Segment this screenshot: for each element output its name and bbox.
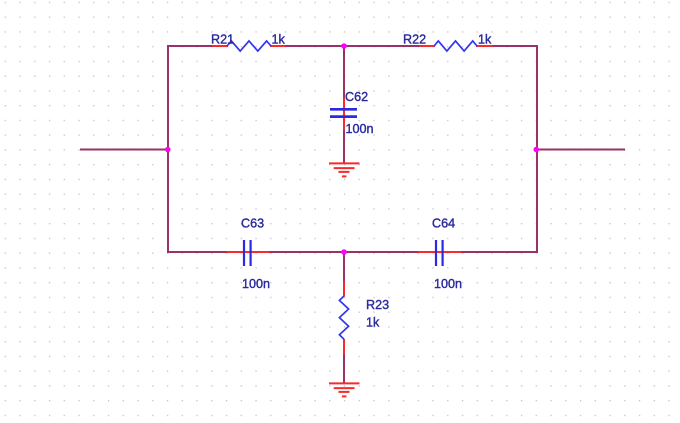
wire: R23 top vertical (node B down to R23) bbox=[343, 252, 345, 282]
capacitor C62 pin (vertical red lead) bbox=[343, 98, 345, 131]
wire: bottom rail left segment bbox=[167, 251, 228, 253]
wire: bottom rail right segment bbox=[460, 251, 538, 253]
resistor R21 pins bbox=[212, 45, 286, 47]
wire: top rail right segment (R22 pin2 to node OUT) bbox=[476, 45, 538, 47]
svg-text:R22: R22 bbox=[403, 32, 426, 46]
capacitor C63 pin (horizontal red lead) bbox=[227, 251, 270, 253]
svg-text:100n: 100n bbox=[242, 277, 270, 291]
wire: R23 bottom vertical to ground bbox=[343, 354, 345, 383]
svg-text:R23: R23 bbox=[366, 298, 389, 312]
wire: bottom rail middle segment bbox=[268, 251, 419, 253]
capacitor C64 value label 100n bbox=[434, 277, 462, 291]
resistor R23 value label 1k bbox=[366, 315, 380, 329]
resistor R22 value label 1k bbox=[478, 32, 492, 46]
resistor R22 pins bbox=[419, 45, 493, 47]
resistor R23 body (vertical zigzag) bbox=[339, 296, 348, 339]
svg-text:1k: 1k bbox=[366, 315, 380, 329]
wire: C62 bottom vertical to ground bbox=[343, 129, 345, 164]
wire: left vertical rail bbox=[167, 45, 169, 253]
capacitor C64 plates bbox=[436, 240, 443, 266]
wire: C62 top vertical (node A down to C62) bbox=[343, 45, 345, 99]
capacitor C64 name label bbox=[432, 217, 455, 231]
svg-text:R21: R21 bbox=[211, 32, 234, 46]
junction node IN (left stub) bbox=[165, 147, 171, 153]
junction node OUT (right stub) bbox=[534, 147, 540, 153]
wire: right output stub bbox=[536, 149, 625, 151]
resistor R21 body bbox=[227, 41, 271, 51]
svg-text:100n: 100n bbox=[346, 122, 374, 136]
capacitor C64 pin (horizontal red lead) bbox=[418, 251, 461, 253]
wire: top rail left segment (node IN to R21 pin1) bbox=[167, 45, 228, 47]
svg-text:C62: C62 bbox=[345, 90, 368, 104]
capacitor C62 name label bbox=[345, 90, 368, 104]
svg-text:C63: C63 bbox=[241, 217, 264, 231]
junction node A (top, R21/R22/C62) bbox=[341, 43, 347, 49]
resistor R21 value label 1k bbox=[272, 32, 286, 46]
svg-text:C64: C64 bbox=[432, 217, 455, 231]
capacitor C62 plates bbox=[330, 109, 357, 116]
wire: left input stub bbox=[80, 149, 169, 151]
capacitor C62 value label 100n bbox=[346, 122, 374, 136]
resistor R21 name label bbox=[211, 32, 234, 46]
capacitor C63 value label 100n bbox=[242, 277, 270, 291]
capacitor C63 plates bbox=[244, 240, 251, 266]
wire: right vertical rail bbox=[536, 45, 538, 253]
resistor R23 pins (vertical red leads) bbox=[343, 281, 345, 355]
ground symbol below R23 bbox=[329, 383, 360, 396]
ground symbol below C62 bbox=[329, 163, 360, 176]
junction node B (bottom, C63/C64/R23) bbox=[341, 249, 347, 255]
svg-text:100n: 100n bbox=[434, 277, 462, 291]
capacitor C63 name label bbox=[241, 217, 264, 231]
svg-text:1k: 1k bbox=[478, 32, 492, 46]
resistor R22 name label bbox=[403, 32, 426, 46]
wire: top rail middle segment (R21 pin2 to R22 pin1, through node A) bbox=[270, 45, 435, 47]
resistor R23 name label bbox=[366, 298, 389, 312]
svg-text:1k: 1k bbox=[272, 32, 286, 46]
resistor R22 body bbox=[434, 41, 477, 51]
